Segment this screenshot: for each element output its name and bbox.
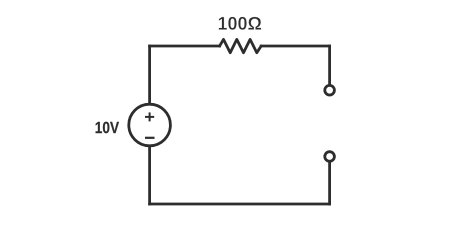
terminal B open circle (325, 152, 335, 162)
voltage source V1 circle (129, 104, 171, 146)
wire voltage source to bottom-left corner (148, 146, 151, 204)
wire bottom-right corner up to terminal B (328, 163, 331, 204)
label 10V (96, 122, 119, 134)
resistor R1 100Ω zigzag (220, 39, 262, 52)
wire top-right corner down to terminal A (328, 46, 331, 84)
minus sign of source (145, 137, 155, 139)
wire resistor to top-right corner (261, 45, 329, 48)
wire top-left corner down to voltage source (148, 46, 151, 104)
label 100Ω (219, 17, 262, 30)
wire top-left to resistor (150, 45, 220, 48)
terminal A open circle (325, 85, 335, 95)
bottom wire (150, 203, 330, 206)
plus sign of source (145, 112, 154, 121)
